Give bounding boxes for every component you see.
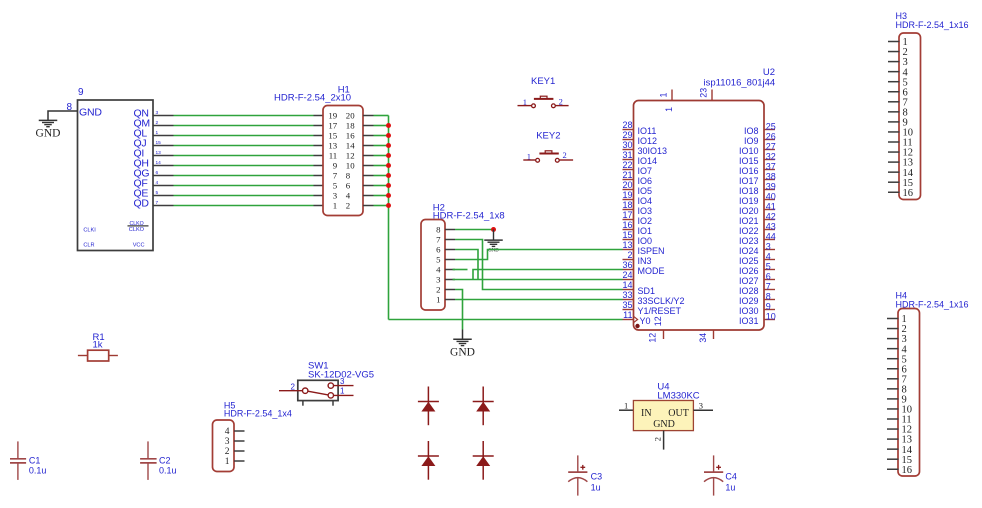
svg-text:10: 10: [766, 311, 776, 321]
U2 right pin 37 stub: [764, 169, 775, 171]
svg-text:1: 1: [664, 107, 674, 112]
H3 pin 2 stub: [888, 51, 900, 53]
SW1 mount stub right: [332, 401, 334, 406]
svg-text:GND: GND: [450, 346, 475, 358]
IC X1 14-stage counter body: [78, 100, 154, 251]
svg-text:Y0: Y0: [640, 316, 651, 326]
U4 pin1 lead: [619, 409, 633, 411]
wire H2 pin1 to U2 pin33: [455, 299, 623, 301]
H1 left stub row 2: [314, 125, 324, 127]
SW1 pin1 lead: [334, 394, 354, 396]
svg-text:37: 37: [766, 161, 776, 171]
X1 CLKO bar: [128, 225, 149, 227]
C2 bottom lead: [147, 463, 149, 480]
U2 right pin 43 stub: [764, 229, 775, 231]
H4 pin 14 stub: [887, 448, 899, 450]
H1 right stub pin 20: [363, 115, 374, 117]
H4 pin 8 stub: [887, 388, 899, 390]
svg-text:IO2: IO2: [638, 216, 653, 226]
U2 right pin 3 stub: [764, 249, 775, 251]
SW1 throw contact pin3: [328, 383, 333, 388]
svg-text:35: 35: [622, 300, 632, 310]
wire H1 pin 10 to bus: [374, 165, 389, 167]
H5 pin 4 stub: [234, 430, 245, 432]
svg-text:IO24: IO24: [739, 246, 759, 256]
H1 right stub pin 6: [363, 185, 374, 187]
H4 pin 10 stub: [887, 408, 899, 410]
H3 pin 13 stub: [888, 161, 900, 163]
U2 left pin 22 stub: [623, 169, 634, 171]
C1 bottom lead: [17, 463, 19, 480]
wire H2 pin5 to ISPEN: [455, 250, 623, 260]
KEY2 left contact: [536, 158, 540, 162]
connector H3 body: [899, 33, 921, 200]
junction dot bus row 5: [386, 153, 391, 158]
X1 pin 5 stub: [153, 195, 174, 197]
ground stem (below H2): [462, 330, 464, 340]
svg-text:26: 26: [766, 131, 776, 141]
wire bus vertical: [388, 116, 390, 320]
svg-text:11: 11: [329, 151, 337, 161]
H4 pin 13 stub: [887, 438, 899, 440]
U2 right pin 4 stub: [764, 259, 775, 261]
svg-text:CLKI: CLKI: [83, 227, 96, 233]
KEY1 right contact: [552, 104, 556, 108]
H1 left stub row 6: [314, 165, 324, 167]
H3 pin 1 stub: [888, 41, 900, 43]
svg-text:1: 1: [340, 386, 345, 395]
svg-text:1: 1: [658, 93, 668, 98]
H1 right stub pin 18: [363, 125, 374, 127]
svg-text:IO12: IO12: [638, 136, 658, 146]
SW1 mount stub left: [302, 401, 304, 406]
svg-text:24: 24: [622, 270, 632, 280]
svg-text:IO31: IO31: [739, 316, 759, 326]
svg-text:38: 38: [766, 171, 776, 181]
U2 right pin 6 stub: [764, 279, 775, 281]
svg-text:20: 20: [346, 111, 355, 121]
U2 left pin 14 stub: [623, 289, 634, 291]
junction dot bus row 4: [386, 143, 391, 148]
U2 right pin 5 stub: [764, 269, 775, 271]
U2 top pin 23 stub: [711, 90, 713, 101]
svg-text:21: 21: [622, 170, 632, 180]
wire QH to H1: [174, 165, 314, 167]
svg-text:IO29: IO29: [739, 296, 759, 306]
svg-text:IO16: IO16: [739, 166, 759, 176]
svg-text:7: 7: [436, 235, 441, 245]
H1 left stub row 3: [314, 135, 324, 137]
svg-text:IO19: IO19: [739, 196, 759, 206]
KEY2 right lead: [559, 159, 573, 161]
svg-text:33: 33: [622, 290, 632, 300]
H2 pin 3 stub: [445, 279, 455, 281]
U4 pin3 lead: [693, 409, 713, 411]
C2 plates: [140, 458, 157, 460]
svg-text:27: 27: [766, 141, 776, 151]
R1 left lead: [78, 355, 88, 357]
svg-text:KEY1: KEY1: [531, 76, 555, 87]
H1 right stub pin 16: [363, 135, 374, 137]
U4 body: [633, 401, 693, 431]
svg-text:12: 12: [653, 316, 663, 326]
wire H1 pin 4 to bus: [374, 195, 389, 197]
svg-text:1k: 1k: [93, 340, 103, 351]
U2 Y0 clock mark: [634, 316, 638, 322]
H1 left stub row 7: [314, 175, 324, 177]
svg-text:20: 20: [622, 180, 632, 190]
U2 left pin 19 stub: [623, 199, 634, 201]
wire H2 pin6 down: [455, 250, 478, 280]
U2 left pin 13 stub: [623, 249, 634, 251]
svg-text:CLKO: CLKO: [129, 227, 145, 233]
KEY1 right lead: [555, 105, 568, 107]
svg-text:34: 34: [698, 333, 708, 343]
wire H1 pin 18 to bus: [374, 125, 389, 127]
capacitor C2 top lead: [147, 441, 149, 458]
H2 pin 6 stub: [445, 249, 455, 251]
svg-text:C2: C2: [159, 456, 171, 466]
H4 pin 3 stub: [887, 338, 899, 340]
U2 left pin 29 stub: [623, 139, 634, 141]
H1 right stub pin 8: [363, 175, 374, 177]
KEY2 actuator bar: [539, 153, 558, 155]
junction dot bus row 3: [386, 133, 391, 138]
KEY1 left contact: [532, 104, 536, 108]
svg-text:IO23: IO23: [739, 236, 759, 246]
H4 pin 2 stub: [887, 328, 899, 330]
H2 pin 2 stub: [445, 289, 455, 291]
svg-text:C1: C1: [29, 456, 41, 466]
H4 pin 7 stub: [887, 378, 899, 380]
wire H1 pin 2 to bus: [374, 205, 389, 207]
C1 plates: [10, 458, 26, 460]
U2 left pin 15 stub: [623, 239, 634, 241]
svg-text:3: 3: [333, 191, 338, 201]
wire QE to H1: [174, 195, 314, 197]
H5 pin 1 stub: [234, 460, 245, 462]
svg-text:ISPEN: ISPEN: [638, 246, 665, 256]
U2 top pin 1 stub: [671, 90, 673, 101]
U2 left pin 36 stub: [623, 269, 634, 271]
svg-text:3: 3: [436, 275, 441, 285]
svg-text:4: 4: [436, 265, 441, 275]
svg-text:IO6: IO6: [638, 176, 653, 186]
svg-text:3: 3: [699, 401, 703, 411]
H1 left stub row 10: [314, 205, 324, 207]
wire H1 pin 16 to bus: [374, 135, 389, 137]
U2 left pin 24 stub: [623, 279, 634, 281]
wire QN to H1: [174, 115, 314, 117]
wire to U2 MODE: [473, 270, 623, 280]
U2 right pin 9 stub: [764, 309, 775, 311]
svg-text:8: 8: [436, 225, 441, 235]
svg-text:VCC: VCC: [133, 242, 145, 248]
svg-text:33SCLK/Y2: 33SCLK/Y2: [638, 296, 685, 306]
svg-text:IO28: IO28: [739, 286, 759, 296]
svg-text:2: 2: [346, 201, 350, 211]
svg-text:6: 6: [766, 271, 771, 281]
U2 left pin 31 stub: [623, 159, 634, 161]
svg-text:17: 17: [328, 121, 337, 131]
U2 right pin 32 stub: [764, 159, 775, 161]
svg-text:5: 5: [156, 190, 159, 196]
svg-text:18: 18: [346, 121, 355, 131]
H4 pin 11 stub: [887, 418, 899, 420]
svg-text:7: 7: [766, 281, 771, 291]
H4 pin 4 stub: [887, 348, 899, 350]
svg-text:SD1: SD1: [638, 286, 656, 296]
svg-text:2: 2: [156, 120, 159, 126]
H3 pin 7 stub: [888, 101, 900, 103]
svg-text:8: 8: [346, 171, 351, 181]
ground symbol (below H2): [453, 338, 472, 340]
X1 pin 1 stub: [153, 135, 174, 137]
connector H5 body: [213, 420, 235, 472]
SW1 pin3 lead: [334, 385, 354, 387]
X1 pin 3 stub: [153, 115, 174, 117]
svg-text:IN: IN: [641, 408, 652, 419]
svg-text:3: 3: [225, 437, 230, 447]
svg-text:IO15: IO15: [739, 156, 759, 166]
svg-text:isp11016_801j44: isp11016_801j44: [704, 77, 776, 88]
svg-text:9: 9: [78, 87, 84, 98]
wire QI to H1: [174, 155, 314, 157]
R1 right lead: [109, 355, 118, 357]
svg-text:IO5: IO5: [638, 186, 653, 196]
svg-text:IO26: IO26: [739, 266, 759, 276]
H1 left stub row 5: [314, 155, 324, 157]
H3 pin 3 stub: [888, 61, 900, 63]
U2 body: [634, 101, 765, 331]
H1 right stub pin 14: [363, 145, 374, 147]
small ground stem: [493, 230, 495, 241]
svg-text:IO10: IO10: [739, 146, 759, 156]
svg-text:IO1: IO1: [638, 226, 653, 236]
svg-text:15: 15: [622, 230, 632, 240]
svg-text:10: 10: [346, 161, 355, 171]
H3 pin 4 stub: [888, 71, 900, 73]
svg-text:42: 42: [766, 211, 776, 221]
svg-text:18: 18: [622, 200, 632, 210]
H5 pin 3 stub: [234, 440, 245, 442]
U2 right pin 7 stub: [764, 289, 775, 291]
junction dot bus row 7: [386, 173, 391, 178]
H4 pin 9 stub: [887, 398, 899, 400]
U2 right pin 27 stub: [764, 149, 775, 151]
H3 pin 14 stub: [888, 171, 900, 173]
U2 right pin 41 stub: [764, 209, 775, 211]
svg-text:40: 40: [766, 191, 776, 201]
svg-text:32: 32: [766, 151, 776, 161]
svg-text:16: 16: [902, 465, 913, 476]
svg-text:36: 36: [622, 260, 632, 270]
svg-text:7: 7: [156, 200, 159, 206]
SW1 body: [298, 380, 338, 400]
svg-text:4: 4: [156, 180, 159, 186]
svg-text:IO14: IO14: [638, 156, 658, 166]
H1 right stub pin 4: [363, 195, 374, 197]
svg-text:HDR-F-2.54_2x10: HDR-F-2.54_2x10: [274, 93, 351, 104]
svg-text:28: 28: [622, 120, 632, 130]
svg-text:16: 16: [622, 220, 632, 230]
svg-text:15: 15: [328, 131, 337, 141]
U2 left pin 16 stub: [623, 229, 634, 231]
svg-text:IO0: IO0: [638, 236, 653, 246]
wire QG to H1: [174, 175, 314, 177]
KEY2 actuator bump: [545, 151, 552, 154]
svg-text:C3: C3: [591, 472, 603, 482]
wire H2 pin2 to ground: [455, 290, 463, 330]
svg-text:1: 1: [624, 401, 628, 411]
junction dot bus row 2: [386, 123, 391, 128]
wire QJ to H1: [174, 145, 314, 147]
H1 right stub pin 10: [363, 165, 374, 167]
svg-text:16: 16: [346, 131, 355, 141]
X1 pin 7 stub: [153, 205, 174, 207]
svg-text:30IO13: 30IO13: [638, 146, 668, 156]
U2 right pin 25 stub: [764, 129, 775, 131]
svg-text:IO21: IO21: [739, 216, 759, 226]
X1 pin 13 stub: [153, 155, 174, 157]
svg-text:41: 41: [766, 201, 776, 211]
SW1 left lead: [279, 390, 303, 392]
U4 pin2 lead: [663, 431, 665, 450]
svg-text:23: 23: [698, 88, 708, 98]
KEY1 left lead: [518, 105, 532, 107]
H3 pin 12 stub: [888, 151, 900, 153]
U2 right pin 8 stub: [764, 299, 775, 301]
H3 pin 15 stub: [888, 181, 900, 183]
SW1 throw contact pin1: [328, 393, 333, 398]
H5 pin 2 stub: [234, 450, 245, 452]
U2 bottom pin 34 stub: [713, 330, 715, 339]
U2 left pin 30 stub: [623, 149, 634, 151]
H4 pin 15 stub: [887, 458, 899, 460]
svg-text:HDR-F-2.54_1x4: HDR-F-2.54_1x4: [224, 409, 292, 419]
H2 pin 7 stub: [445, 239, 455, 241]
svg-text:8: 8: [766, 291, 771, 301]
svg-text:9: 9: [766, 301, 771, 311]
wire H1 pin 12 to bus: [374, 155, 389, 157]
U2 left pin 21 stub: [623, 179, 634, 181]
svg-text:CLR: CLR: [83, 243, 94, 249]
svg-text:0.1u: 0.1u: [29, 465, 47, 475]
junction dot bus row 8: [386, 183, 391, 188]
svg-text:IO17: IO17: [739, 176, 759, 186]
KEY1 actuator bump: [540, 96, 547, 99]
svg-text:2: 2: [225, 447, 230, 457]
U2 right pin 42 stub: [764, 219, 775, 221]
U2 right pin 26 stub: [764, 139, 775, 141]
svg-text:31: 31: [622, 150, 632, 160]
KEY1 actuator bar: [534, 98, 554, 100]
svg-text:9: 9: [333, 161, 338, 171]
wire H1 pin 20 to bus: [374, 115, 389, 117]
svg-text:14: 14: [346, 141, 355, 151]
H1 left stub row 9: [314, 195, 324, 197]
svg-text:2: 2: [652, 437, 662, 441]
svg-text:43: 43: [766, 221, 776, 231]
svg-text:4: 4: [346, 191, 351, 201]
svg-text:1: 1: [225, 457, 230, 467]
wire X1 pin8 to ground: [48, 111, 78, 120]
svg-text:1u: 1u: [591, 482, 601, 492]
wire H2 pin7 to U2 SD1: [455, 240, 623, 290]
H1 left stub row 4: [314, 145, 324, 147]
svg-text:5: 5: [333, 181, 338, 191]
U2 left pin 18 stub: [623, 209, 634, 211]
connector H1 body: [323, 106, 363, 216]
H2 pin 5 stub: [445, 259, 455, 261]
svg-text:C4: C4: [725, 472, 737, 482]
H2 pin 1 stub: [445, 299, 455, 301]
U2 right pin 44 stub: [764, 239, 775, 241]
svg-text:39: 39: [766, 181, 776, 191]
KEY2 right contact: [555, 158, 559, 162]
svg-text:QD: QD: [134, 197, 150, 209]
svg-text:6: 6: [156, 170, 159, 176]
H3 pin 5 stub: [888, 81, 900, 83]
SW1 common contact: [303, 388, 308, 393]
connector H4 body: [898, 309, 920, 477]
U2 right pin 38 stub: [764, 179, 775, 181]
junction dot near H2 pin8: [491, 227, 496, 232]
H2 pin 8 stub: [445, 229, 455, 231]
X1 pin 4 stub: [153, 185, 174, 187]
svg-text:3: 3: [340, 377, 345, 386]
svg-text:1u: 1u: [725, 482, 735, 492]
svg-text:44: 44: [766, 231, 776, 241]
svg-text:HDR-F-2.54_1x16: HDR-F-2.54_1x16: [896, 20, 969, 30]
X1 pin 15 stub: [153, 145, 174, 147]
svg-text:IO11: IO11: [638, 126, 657, 136]
svg-text:0.1u: 0.1u: [159, 465, 177, 475]
svg-text:1: 1: [333, 201, 337, 211]
KEY2 left lead: [523, 159, 535, 161]
U2 left pin 17 stub: [623, 219, 634, 221]
X1 pin 14 stub: [153, 165, 174, 167]
U2 right pin 10 stub: [764, 319, 775, 321]
svg-text:IO7: IO7: [638, 166, 653, 176]
H3 pin 8 stub: [888, 111, 900, 113]
svg-text:OUT: OUT: [668, 408, 689, 419]
wire QF to H1: [174, 185, 314, 187]
svg-text:13: 13: [622, 240, 632, 250]
svg-text:3: 3: [766, 241, 771, 251]
H1 left stub row 8: [314, 185, 324, 187]
svg-text:IO18: IO18: [739, 186, 759, 196]
H3 pin 6 stub: [888, 91, 900, 93]
H3 pin 9 stub: [888, 121, 900, 123]
svg-text:MODE: MODE: [638, 266, 665, 276]
svg-text:IO20: IO20: [739, 206, 759, 216]
svg-text:5: 5: [436, 255, 441, 265]
svg-text:6: 6: [436, 245, 441, 255]
capacitor C1 top lead: [17, 441, 19, 458]
svg-text:7: 7: [333, 171, 338, 181]
svg-text:2: 2: [436, 285, 440, 295]
H3 pin 11 stub: [888, 141, 900, 143]
svg-text:IO30: IO30: [739, 306, 759, 316]
diode D1: [427, 387, 429, 426]
H2 pin 4 stub: [445, 269, 455, 271]
svg-text:11: 11: [623, 310, 632, 320]
svg-text:12: 12: [648, 333, 658, 343]
svg-text:25: 25: [766, 121, 776, 131]
svg-text:19: 19: [328, 111, 337, 121]
wire bus bottom to U2 Y0: [389, 319, 623, 321]
